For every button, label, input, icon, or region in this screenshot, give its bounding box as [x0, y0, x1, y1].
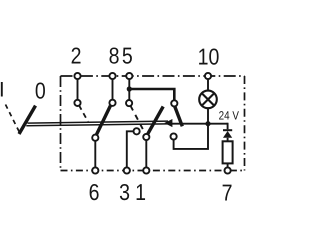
dashed contact lever under 2 — [79, 105, 88, 121]
terminal 1 — [143, 167, 149, 173]
wire terminal 2 down — [77, 79, 79, 100]
wire contact E to terminal 3 — [127, 131, 134, 167]
terminal 2 — [74, 73, 80, 79]
terminal 7 — [225, 167, 231, 173]
lower contact F — [143, 134, 149, 140]
contact lever from F (open) — [148, 107, 164, 135]
svg-text:7: 7 — [222, 180, 233, 206]
switch housing outline (dash-dot box) — [61, 76, 245, 171]
svg-text:24 V: 24 V — [219, 109, 239, 123]
wire contact G to lamp node — [174, 124, 208, 149]
contact A under terminal 8 — [109, 100, 115, 106]
wire diode to resistor — [227, 138, 229, 142]
svg-text:8: 8 — [109, 43, 120, 69]
wire contact F to terminal 1 — [145, 140, 147, 167]
terminal 5 — [126, 73, 132, 79]
svg-text:0: 0 — [35, 77, 46, 103]
dashed contact lever B to F — [130, 106, 145, 135]
svg-text:2: 2 — [71, 43, 82, 69]
resistor — [223, 141, 233, 163]
junction node on wire 5 — [127, 86, 132, 91]
wire junction to contact C — [129, 89, 174, 100]
svg-text:3: 3 — [119, 179, 130, 205]
contact lever A to 6 (closed) — [96, 106, 110, 135]
indicator lamp — [199, 91, 217, 109]
svg-text:6: 6 — [89, 179, 100, 205]
lower contact E — [134, 128, 140, 134]
terminal 8 — [109, 73, 115, 79]
lamp node junction dot — [205, 121, 210, 126]
actuator bar (double line) — [28, 121, 169, 123]
lower contact G — [171, 133, 177, 139]
wire terminal 10 down to lamp — [207, 79, 209, 91]
wire terminal 8 down — [112, 79, 114, 100]
wire node to diode — [227, 124, 228, 130]
wire contact to terminal 6 — [94, 141, 96, 168]
wire terminal 5 down — [128, 79, 130, 100]
toggle lever (position 0) — [19, 106, 36, 134]
contact under terminal 2 — [74, 100, 80, 106]
terminal 6 — [92, 167, 98, 173]
diode (cathode bar) — [223, 129, 232, 131]
terminal 3 — [124, 167, 130, 173]
lower contact to terminal 6 — [92, 135, 98, 141]
diode triangle — [223, 131, 232, 138]
toggle lever alternate position (dashed) — [6, 105, 20, 133]
svg-text:5: 5 — [122, 43, 133, 69]
contact lever from C (short) — [175, 106, 183, 126]
contact B under terminal 5 — [126, 100, 132, 106]
svg-text:1: 1 — [135, 179, 146, 205]
actuator arrow — [164, 119, 172, 127]
contact C right pole — [171, 100, 177, 106]
terminal 10 — [205, 73, 211, 79]
wire resistor to terminal 7 — [227, 163, 229, 167]
svg-text:10: 10 — [198, 44, 220, 70]
wire from actuator arrow to lamp node — [171, 123, 228, 125]
position mark I — [1, 82, 3, 97]
wire lamp to node — [207, 108, 209, 124]
